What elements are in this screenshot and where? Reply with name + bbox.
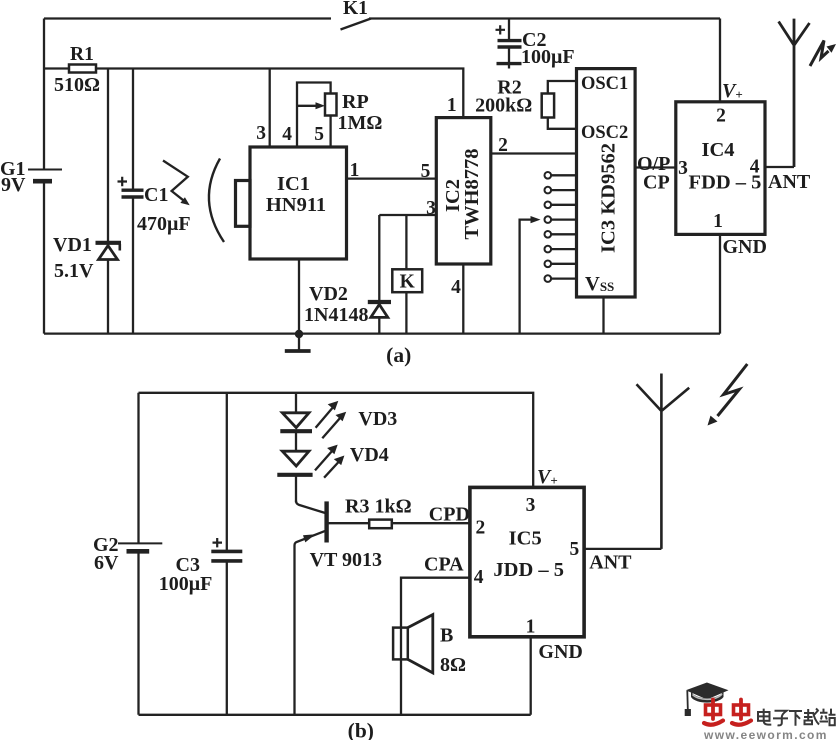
resistor R3 [369,520,392,529]
wire K to ground rail [405,292,407,333]
svg-text:4: 4 [282,124,292,145]
ground [298,334,300,350]
diode VD2 1N4148 [368,300,391,304]
wire C1 tap [132,69,134,191]
svg-text:ANT: ANT [589,552,632,574]
svg-text:VD3: VD3 [358,408,397,430]
svg-text:3: 3 [526,495,536,516]
svg-text:200kΩ: 200kΩ [475,95,532,117]
svg-text:GND: GND [538,641,582,663]
speaker B [393,628,408,660]
svg-text:8Ω: 8Ω [440,654,466,676]
svg-text:1MΩ: 1MΩ [338,112,383,134]
svg-text:K1: K1 [343,0,368,19]
svg-text:2: 2 [716,106,726,127]
svg-text:5.1V: 5.1V [54,260,94,282]
svg-text:1: 1 [526,617,536,638]
resistor R2 [548,81,577,129]
svg-text:2: 2 [476,518,486,539]
wire bottom rail B [139,714,531,716]
wire VD1 to ground rail [107,260,109,334]
capacitor C3 [211,551,242,561]
svg-text:HN911: HN911 [266,194,326,216]
svg-text:CP: CP [643,172,670,194]
svg-text:IC5: IC5 [509,528,542,550]
wire bottom rail A [44,332,720,334]
wire IC1 bottom pin [298,259,300,334]
svg-text:R1: R1 [70,44,94,65]
LED VD3 [282,413,309,428]
wire VD2 to ground rail [378,317,380,333]
IC2 [436,118,491,264]
svg-text:510Ω: 510Ω [54,74,100,96]
wire left vertical top [43,19,45,170]
RX wave symbol [718,364,748,416]
antenna A2 [637,374,690,549]
transistor VT 9013 [296,501,325,513]
CIRCUIT-B [93,364,747,740]
code select arrow [520,220,532,334]
svg-text:CPD: CPD [429,504,470,526]
svg-text:1: 1 [350,160,360,181]
wire RP network pin4 [297,83,331,148]
svg-text:(a): (a) [386,343,411,367]
svg-text:www.eeworm.com: www.eeworm.com [703,728,828,740]
svg-text:9V: 9V [1,174,26,196]
svg-text:(b): (b) [348,719,374,740]
wire IC4 pin4 to antenna [765,166,794,168]
svg-text:3: 3 [256,123,266,144]
IC3 KD9562 [577,69,636,297]
svg-text:R3 1kΩ: R3 1kΩ [345,496,412,518]
IC4 FDD-5 [676,102,765,235]
wire top rail B [139,393,534,488]
capacitor C2 [508,19,510,40]
zener VD1 [96,241,122,245]
wire VD1 tap [107,69,109,243]
svg-text:100μF: 100μF [159,573,213,595]
svg-text:K: K [400,272,416,293]
svg-text:5: 5 [314,124,324,145]
wire left vertical B [137,393,139,544]
svg-text:470μF: 470μF [137,213,191,235]
wire C1 to ground rail [132,197,134,334]
code select terminals [545,172,552,282]
svg-text:3: 3 [678,158,688,179]
svg-text:IC3 KD9562: IC3 KD9562 [598,143,620,253]
svg-text:B: B [440,625,453,647]
svg-text:5: 5 [421,161,431,182]
wire C3 tap [226,393,228,552]
LED VD4 [282,451,309,466]
svg-text:GND: GND [723,236,767,258]
svg-text:IC4: IC4 [701,139,734,161]
ground node junction [295,330,303,338]
svg-text:VD1: VD1 [53,234,92,256]
wire VD2 branch [378,215,380,302]
svg-text:JDD – 5: JDD – 5 [493,559,564,581]
wire base to R3 [327,522,370,524]
wire IC2 pin4 [462,264,464,334]
resistor R1 [69,65,96,73]
antenna A1 [779,19,810,167]
wire CPA [401,578,470,628]
wire second rail [44,69,463,118]
svg-text:VD4: VD4 [350,444,389,466]
wire IC3 O/P to IC4 pin3 [635,166,676,168]
svg-text:6V: 6V [94,552,119,574]
wire IC3 Vss pin [602,297,604,334]
wire IC2 pin2 to IC3 [491,152,577,154]
terminal stub wires [551,175,576,278]
svg-text:RP: RP [342,91,369,113]
svg-text:100μF: 100μF [521,46,575,68]
svg-text:1N4148: 1N4148 [304,304,368,326]
IR lens arc [209,159,224,243]
svg-text:TWH8778: TWH8778 [461,148,483,239]
wire R3 to IC5 CPD [392,522,470,524]
svg-text:OSC1: OSC1 [581,74,628,94]
wire C3 to bottom rail [226,561,228,715]
wire left vertical bottom [43,181,45,333]
battery G2 [118,542,162,544]
CIRCUIT-A [0,0,836,367]
svg-text:VT 9013: VT 9013 [310,549,382,571]
svg-text:OSC2: OSC2 [581,123,628,143]
TX wave symbol [810,41,829,67]
wire speaker branch [400,628,402,715]
wire top rail left segment [44,17,331,19]
wire IC5 GND pin1 [530,637,532,715]
wire IC1 pin3 [269,69,271,148]
svg-text:5: 5 [570,539,580,560]
svg-text:VD2: VD2 [309,283,348,305]
svg-text:4: 4 [750,157,760,178]
wire LED chain top [295,393,297,413]
capacitor C1 [122,190,144,197]
svg-text:C1: C1 [144,184,168,206]
svg-text:4: 4 [474,567,484,588]
svg-text:CPA: CPA [424,554,464,576]
relay contact K [392,269,422,292]
wire RP to pin5 [329,116,331,148]
op-amp IC1 [250,147,347,259]
svg-text:ANT: ANT [768,171,811,193]
LOGO [685,683,836,740]
wire IC4 GND pin1 [719,234,721,333]
IR signal arrow [163,161,188,201]
wire K branch [405,215,407,269]
logo text dianzixiazaizhan [758,709,836,726]
wire IC4 V+ pin2 [719,19,721,102]
wire top rail right segment [369,17,720,19]
battery G1 [28,169,62,171]
switch K1 [341,19,372,30]
svg-text:4: 4 [451,277,461,298]
wire G2 to bottom rail [137,551,139,715]
wire VD3 to VD4 [295,431,297,451]
logo text chongchong [704,700,751,725]
svg-text:IC1: IC1 [277,173,310,195]
wire IC2 pin3 node [379,214,436,216]
logo graduation cap [686,683,729,700]
wire IC5 ANT pin5 [584,548,661,550]
IC5 JDD-5 [470,487,584,636]
svg-text:1: 1 [713,211,723,232]
potentiometer RP [325,94,337,116]
svg-text:1: 1 [447,95,457,116]
wire VD4 to collector [295,475,297,503]
wire IC1 pin1 to IC2 pin5 [347,177,437,179]
